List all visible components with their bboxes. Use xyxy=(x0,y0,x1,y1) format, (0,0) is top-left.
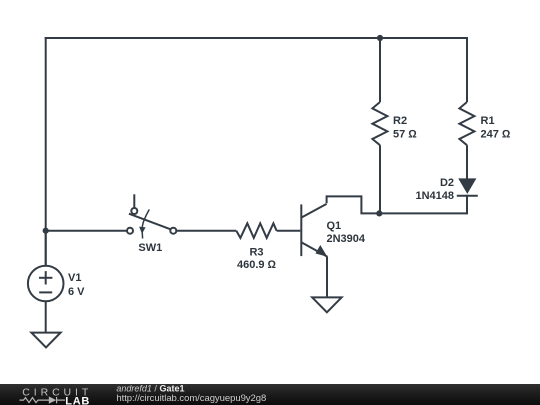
wire left vertical from top rail to V1 xyxy=(45,37,47,266)
wire R1 to D2 xyxy=(466,145,468,178)
wire main row V1 to switch xyxy=(46,230,127,232)
svg-text:2N3904: 2N3904 xyxy=(327,233,366,245)
resistor R3 zigzag xyxy=(236,223,276,238)
node dot bottom row / R2 xyxy=(376,210,382,216)
svg-text:Q1: Q1 xyxy=(327,220,342,232)
node dot top rail / R2 xyxy=(377,35,383,41)
switch SW1 arrow head xyxy=(139,227,146,234)
node dot V1 / switch row xyxy=(43,228,49,234)
diode D2 triangle xyxy=(458,178,476,194)
transistor Q1 emitter arrow head xyxy=(316,245,328,257)
voltage source V1 circle xyxy=(28,266,64,302)
wire switch to R3 xyxy=(176,230,236,232)
svg-text:6 V: 6 V xyxy=(68,286,85,298)
svg-text:V1: V1 xyxy=(68,272,81,284)
switch SW1 top terminal circle xyxy=(131,208,137,214)
svg-text:1N4148: 1N4148 xyxy=(415,190,454,202)
resistor R2 zigzag xyxy=(372,102,387,145)
svg-text:D2: D2 xyxy=(440,177,454,189)
wire R3 to Q1 base xyxy=(277,230,301,232)
footer logo diode triangle xyxy=(49,396,56,403)
wire V1 bottom xyxy=(45,301,47,332)
V1 minus sign xyxy=(39,291,52,293)
transistor Q1 emitter diagonal xyxy=(301,242,327,256)
wire V1 top stub xyxy=(45,231,47,266)
wire bottom row collector to D2 xyxy=(327,196,467,213)
wire R2 branch top xyxy=(379,38,381,102)
svg-text:LAB: LAB xyxy=(65,395,90,405)
diode D2 cathode bar xyxy=(457,195,478,197)
svg-text:andrefd1 / Gate1: andrefd1 / Gate1 xyxy=(116,383,184,393)
switch SW1 right terminal circle xyxy=(170,228,176,234)
svg-text:460.9 Ω: 460.9 Ω xyxy=(237,259,277,271)
wire R1 branch top xyxy=(466,37,468,102)
svg-text:57 Ω: 57 Ω xyxy=(393,129,417,141)
svg-text:247 Ω: 247 Ω xyxy=(481,129,511,141)
footer logo resistor-diode glyph xyxy=(20,397,66,403)
wire R2 bottom xyxy=(379,145,381,213)
wire Q1 emitter down xyxy=(326,256,328,297)
svg-text:R3: R3 xyxy=(249,246,263,258)
switch SW1 left terminal circle xyxy=(127,228,133,234)
transistor Q1 collector diagonal xyxy=(301,204,326,218)
resistor R1 zigzag xyxy=(459,102,474,145)
svg-text:http://circuitlab.com/cagyuepu: http://circuitlab.com/cagyuepu9y2g8 xyxy=(116,393,266,404)
ground below V1 xyxy=(31,333,60,348)
wire D2 bottom xyxy=(466,195,468,215)
switch SW1 actuation arc arrow xyxy=(142,210,149,239)
svg-text:SW1: SW1 xyxy=(138,242,162,254)
switch SW1 top stub xyxy=(133,194,135,208)
transistor Q1 base bar xyxy=(300,204,302,256)
ground below Q1 xyxy=(312,297,341,312)
svg-text:R1: R1 xyxy=(481,115,495,127)
wire top rail xyxy=(45,37,468,39)
switch SW1 blade xyxy=(129,214,171,230)
footer bar xyxy=(0,384,540,405)
svg-text:R2: R2 xyxy=(393,115,407,127)
V1 plus sign xyxy=(39,277,52,279)
